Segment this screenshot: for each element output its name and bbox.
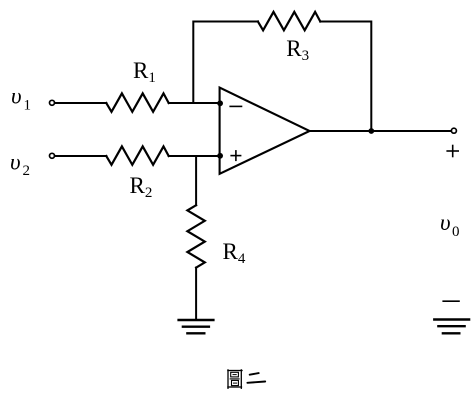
wire v2 to R2 [55, 155, 107, 157]
svg-text:2: 2 [23, 163, 31, 179]
input terminal v2 [50, 153, 55, 158]
resistor R3 [258, 12, 320, 30]
label v1 [11, 83, 31, 113]
ground (right, output reference) [434, 320, 469, 334]
node inverting input junction [217, 100, 223, 106]
wire v1 to R1 [55, 102, 107, 104]
svg-text:0: 0 [452, 224, 460, 240]
wire R4 to ground [195, 268, 197, 319]
input terminal v1 [50, 100, 55, 105]
wire top right down to output [320, 22, 371, 132]
label R4 [223, 239, 246, 267]
svg-text:υ: υ [440, 210, 451, 235]
wire op-amp output to terminal [310, 130, 451, 132]
label R2 [130, 173, 153, 201]
ground (left, below R4) [179, 320, 214, 333]
op-amp minus sign [230, 105, 241, 107]
op-amp U1 [220, 88, 310, 174]
label v2 [10, 149, 30, 179]
output terminal vo [451, 128, 456, 133]
resistor R2 [106, 146, 168, 164]
resistor R4 [187, 205, 204, 267]
label R3 [286, 36, 309, 64]
resistor R1 [106, 93, 168, 111]
node noninverting input junction [217, 153, 223, 159]
svg-text:R3: R3 [286, 36, 309, 64]
op-amp plus sign [231, 151, 240, 160]
caption figure 2 character tu [228, 370, 242, 388]
svg-text:R4: R4 [223, 239, 246, 267]
wire top feedback horizontal [193, 22, 258, 104]
label R1 [133, 58, 156, 86]
svg-text:υ: υ [10, 149, 21, 174]
wire R2 to noninverting input [169, 155, 220, 157]
svg-text:R1: R1 [133, 58, 156, 86]
wire noninverting node down to R4 [195, 156, 197, 205]
label v0 [440, 210, 460, 240]
output minus sign [443, 300, 459, 302]
svg-text:R2: R2 [130, 173, 153, 201]
svg-text:1: 1 [24, 98, 32, 114]
svg-text:υ: υ [11, 83, 22, 108]
caption figure 2 character er [247, 373, 265, 383]
wire R1 to inverting input [169, 102, 220, 104]
output plus sign [447, 146, 458, 157]
node output junction [368, 128, 374, 134]
